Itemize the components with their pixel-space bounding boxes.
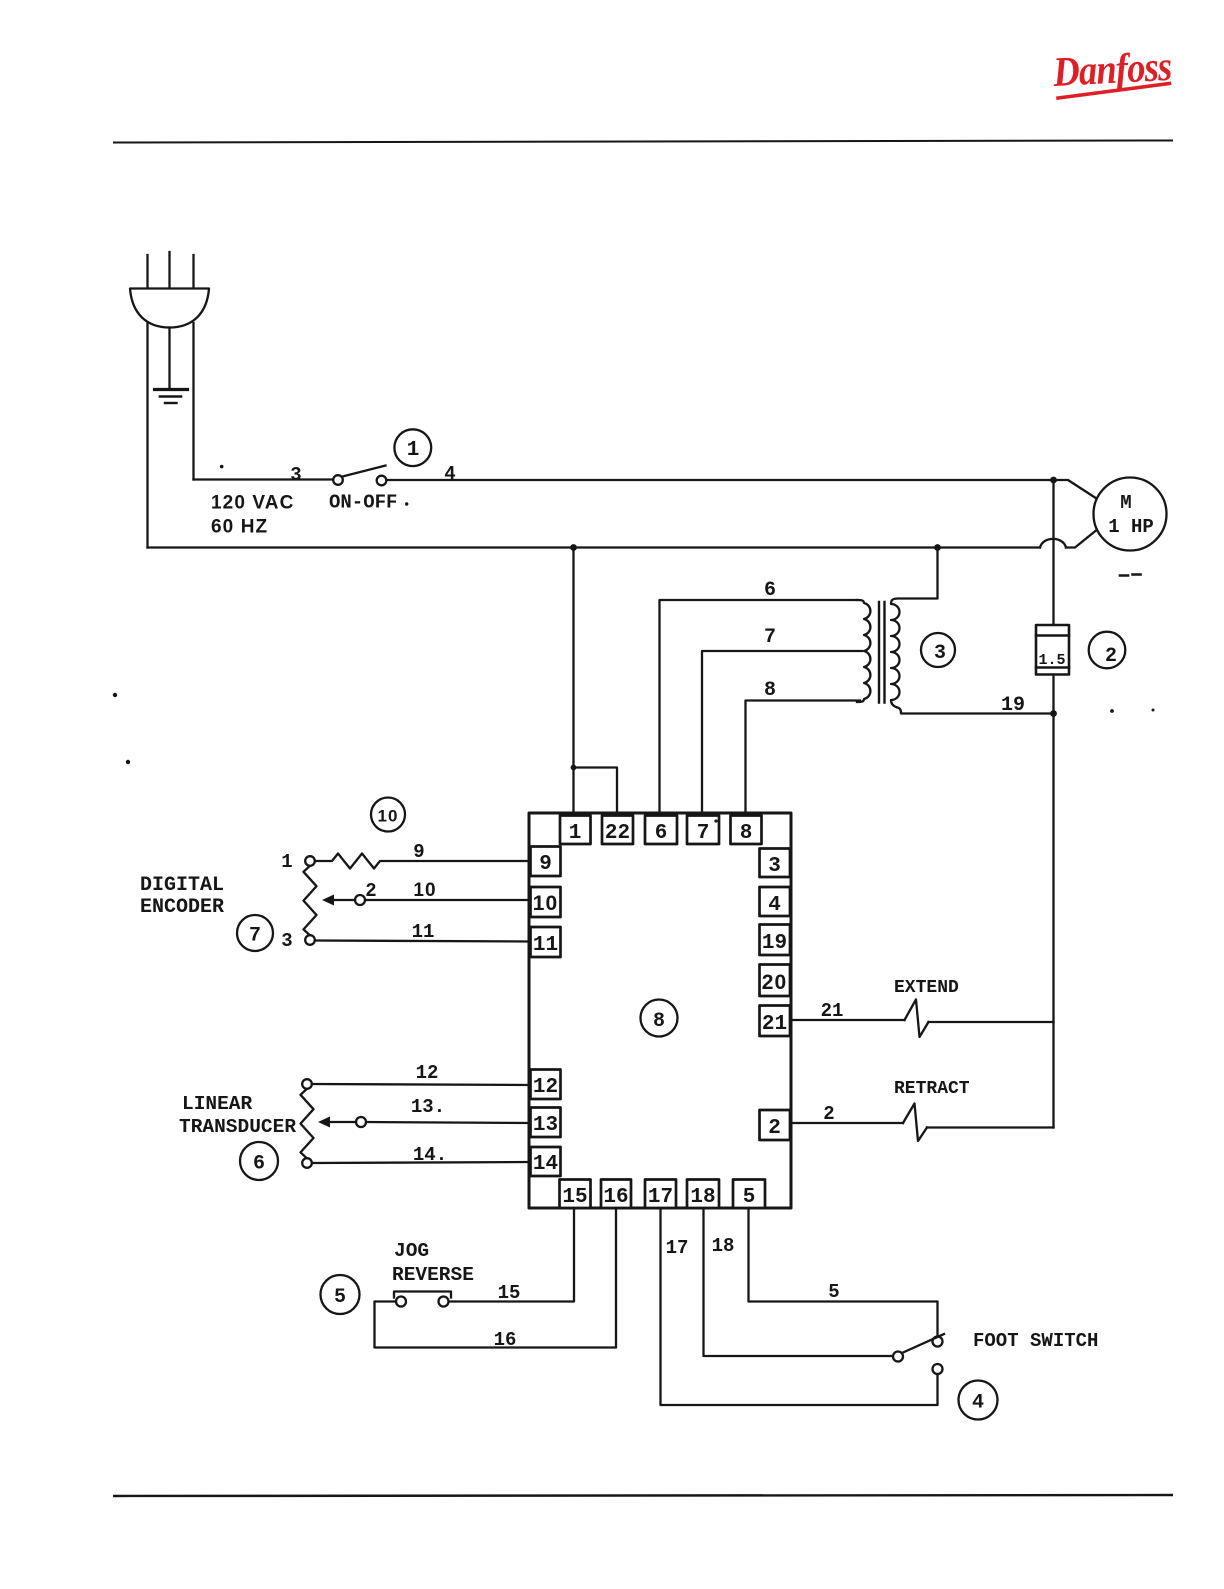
pin box 13 [531, 1108, 561, 1138]
AC plug P1 prong left [146, 255, 148, 288]
svg-text:15: 15 [498, 1282, 521, 1304]
pin box 8 [731, 816, 762, 845]
pin box 2 [760, 1110, 791, 1140]
transformer T secondary winding with leads [891, 548, 1054, 714]
svg-text:7: 7 [697, 822, 710, 845]
linear transducer potentiometer winding [301, 1089, 314, 1159]
junction dot neutral/transformer branch [934, 544, 941, 551]
wire hop over vertical conductor [1040, 539, 1066, 548]
transducer wiper contact [356, 1117, 366, 1127]
svg-text:4: 4 [768, 894, 781, 917]
pin box 3 [760, 849, 791, 878]
encoder terminal 3 [305, 935, 315, 945]
junction at line rail and down conductor [1050, 477, 1057, 484]
switch S1 ON-OFF lever [343, 466, 386, 477]
svg-text:1: 1 [281, 851, 292, 873]
callout circle 6 [240, 1142, 278, 1180]
callout circle 1 [394, 429, 431, 466]
pin box 15 [560, 1180, 591, 1209]
wire 15 pin15 to jog button [449, 1208, 575, 1302]
encoder wiper arm [330, 899, 355, 901]
svg-text:22: 22 [605, 822, 630, 845]
wire 13 transducer wiper to pin 13 [366, 1122, 530, 1123]
svg-text:6: 6 [764, 579, 776, 602]
foot switch lower contact [933, 1364, 943, 1374]
foot switch lever [903, 1334, 944, 1353]
callout circle 7 [237, 915, 273, 951]
svg-text:EXTEND: EXTEND [894, 978, 959, 998]
svg-text:120 VAC: 120 VAC [211, 493, 294, 514]
wire 9 with resistor component 10 [315, 854, 531, 869]
wire: plug right lead down to switch rail [192, 323, 194, 480]
svg-text:4: 4 [444, 463, 455, 485]
pin box 21 [760, 1006, 791, 1037]
jog button contact right [439, 1297, 449, 1307]
transducer wiper arrowhead [318, 1117, 330, 1128]
svg-text:1.5: 1.5 [1038, 652, 1065, 669]
callout circle 5 [321, 1275, 360, 1314]
junction dot wire 19 [1050, 710, 1057, 717]
svg-text:19: 19 [1001, 694, 1025, 717]
pin box 22 [602, 816, 633, 845]
svg-text:18: 18 [690, 1186, 715, 1209]
stray speck marks [220, 465, 224, 469]
svg-text:19: 19 [762, 932, 787, 955]
svg-text:LINEAR: LINEAR [182, 1093, 253, 1115]
svg-text:2: 2 [365, 880, 376, 902]
transducer terminal top [302, 1079, 312, 1089]
ground lead [168, 328, 170, 389]
svg-text:12: 12 [533, 1076, 558, 1099]
svg-text:ENCODER: ENCODER [140, 896, 224, 919]
svg-text:1: 1 [569, 822, 582, 845]
wire 10 encoder wiper to pin 10 [365, 899, 530, 901]
pin box 19 [760, 925, 791, 956]
svg-text:16: 16 [494, 1329, 517, 1351]
header rule [113, 141, 1173, 143]
svg-text:14.: 14. [413, 1144, 447, 1166]
AC plug P1 body [130, 289, 209, 328]
pin box 16 [601, 1180, 631, 1209]
pin box 10 [531, 887, 561, 917]
jog reverse button bar [394, 1292, 451, 1298]
pin box 18 [687, 1180, 719, 1209]
callout circle 2 [1089, 632, 1126, 669]
svg-text:DIGITAL: DIGITAL [140, 874, 224, 897]
wire 21 break symbol [905, 1000, 929, 1038]
ground symbol [155, 388, 188, 391]
pin box 6 [645, 816, 677, 845]
pin box 9 [531, 847, 561, 877]
svg-text:10: 10 [377, 807, 398, 826]
svg-text:3: 3 [281, 930, 292, 952]
pin box 5 [733, 1180, 765, 1209]
svg-text:5: 5 [743, 1186, 756, 1209]
callout circle 10 [371, 798, 405, 832]
wire: motor top lead [1054, 480, 1097, 499]
svg-text:60 HZ: 60 HZ [211, 517, 268, 538]
svg-text:18: 18 [712, 1235, 735, 1257]
svg-text:17: 17 [666, 1237, 689, 1259]
svg-text:20: 20 [762, 971, 788, 994]
svg-text:6: 6 [253, 1153, 265, 1176]
AC plug P1 prong right [192, 255, 194, 288]
junction dot pin1/22 branch [571, 765, 577, 771]
svg-text:M: M [1120, 492, 1131, 514]
digital encoder potentiometer winding [304, 866, 317, 936]
svg-text:9: 9 [413, 841, 424, 863]
svg-text:3: 3 [934, 642, 946, 665]
svg-text:11: 11 [533, 934, 558, 957]
svg-text:8: 8 [764, 679, 776, 702]
svg-text:14: 14 [533, 1153, 558, 1176]
wire: plug left lead down to neutral rail [146, 322, 148, 548]
svg-text:21: 21 [762, 1013, 787, 1036]
wire 11 encoder low to pin 11 [315, 941, 530, 942]
wire 2 retract left segment [791, 1122, 903, 1124]
svg-text:4: 4 [972, 1392, 984, 1415]
svg-text:5: 5 [334, 1286, 346, 1309]
svg-text:REVERSE: REVERSE [392, 1264, 474, 1286]
svg-text:3: 3 [290, 464, 301, 486]
svg-text:1: 1 [407, 439, 420, 462]
svg-text:1 HP: 1 HP [1108, 516, 1154, 538]
wire 21 extend right segment [929, 1021, 1054, 1023]
svg-text:8: 8 [653, 1010, 665, 1033]
svg-text:6: 6 [655, 822, 668, 845]
svg-text:7: 7 [249, 925, 261, 948]
junction dot neutral/pin1 branch [570, 544, 577, 551]
wire 17 pin17 to foot switch lower contact [661, 1208, 938, 1405]
transformer T primary winding [857, 600, 870, 702]
svg-text:13: 13 [533, 1114, 558, 1137]
wire 7 riser to pin 7 [702, 651, 862, 813]
callout circle 8 [641, 1000, 678, 1037]
stray dash marks right of motor [1120, 575, 1141, 576]
svg-text:Danfoss: Danfoss [1051, 44, 1173, 96]
transducer wiper arm [326, 1121, 356, 1123]
controller box component 8 [529, 813, 791, 1208]
wire 18 pin18 to foot switch common [704, 1208, 893, 1356]
pin box 14 [531, 1147, 561, 1176]
encoder terminal 1 [305, 856, 315, 866]
svg-text:21: 21 [821, 1000, 844, 1022]
svg-text:2: 2 [768, 1117, 781, 1140]
svg-text:11: 11 [412, 921, 435, 943]
svg-text:5: 5 [828, 1281, 839, 1303]
wire 5 pin5 to foot switch upper contact [749, 1208, 938, 1336]
wire: neutral rail [148, 546, 1041, 548]
encoder wiper arrowhead [322, 895, 334, 906]
wire 16 jog button to pin16 [375, 1208, 617, 1348]
foot switch upper contact [933, 1337, 943, 1347]
svg-text:ON-OFF: ON-OFF [329, 492, 397, 514]
svg-text:16: 16 [603, 1186, 628, 1209]
foot switch common contact [893, 1352, 903, 1362]
svg-text:8: 8 [740, 822, 753, 845]
AC plug P1 prong middle [168, 252, 170, 288]
svg-text:2: 2 [823, 1103, 834, 1125]
svg-text:15: 15 [562, 1186, 587, 1209]
switch S1 contact left [333, 475, 343, 485]
svg-text:2: 2 [1105, 645, 1117, 668]
wire: main right vertical conductor upper [1052, 480, 1054, 625]
svg-text:10: 10 [413, 880, 436, 901]
wire: motor bottom lead [1066, 531, 1096, 548]
motor M 1 HP [1094, 478, 1167, 551]
svg-text:7: 7 [764, 626, 776, 649]
pin box 1 [560, 816, 591, 845]
pin box 17 [645, 1180, 676, 1209]
pin box 11 [531, 927, 561, 957]
svg-text:9: 9 [539, 853, 552, 876]
svg-text:TRANSDUCER: TRANSDUCER [179, 1116, 296, 1138]
encoder wiper contact 2 [355, 895, 365, 905]
transformer T core [879, 602, 885, 703]
Danfoss logo [1051, 44, 1173, 100]
callout circle 3 [921, 633, 955, 667]
svg-text:12: 12 [416, 1062, 439, 1084]
svg-text:3: 3 [768, 855, 781, 878]
pin box 12 [531, 1070, 561, 1100]
callout circle 4 [959, 1381, 998, 1420]
svg-text:17: 17 [648, 1186, 673, 1209]
svg-text:RETRACT: RETRACT [894, 1079, 970, 1099]
switch S1 contact right [377, 476, 387, 486]
pin box 4 [760, 887, 791, 916]
wire 6 riser to pin 6 [660, 600, 858, 813]
wire 4: switch to motor [387, 479, 1054, 481]
svg-text:13.: 13. [411, 1096, 445, 1118]
wire: line rail to switch [194, 478, 334, 480]
wire 8 riser to pin 8 [746, 701, 861, 814]
wire 2 retract right segment [927, 1126, 1054, 1128]
transducer terminal bottom [302, 1158, 312, 1168]
wire: main right vertical conductor lower [1052, 675, 1054, 1128]
svg-text:FOOT SWITCH: FOOT SWITCH [973, 1330, 1098, 1352]
wire 21 extend left segment [791, 1019, 905, 1021]
wire 14 transducer low to pin 14 [312, 1162, 531, 1163]
wire 12 transducer top to pin 12 [312, 1084, 531, 1085]
pin box 7 [687, 816, 719, 845]
pin box 20 [760, 965, 791, 997]
jog button contact left [396, 1297, 406, 1307]
component 2 capacitor body [1036, 625, 1069, 675]
svg-text:JOG: JOG [394, 1240, 429, 1262]
wire 2 break symbol [903, 1104, 927, 1142]
svg-text:10: 10 [533, 892, 559, 915]
wire: neutral branch down to pins 1 and 22 [574, 548, 618, 814]
footer rule [113, 1495, 1173, 1496]
